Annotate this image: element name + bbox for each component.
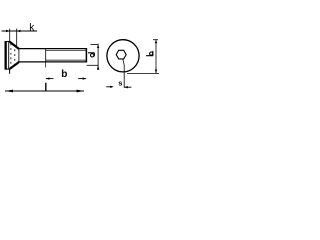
head cone top edge	[10, 42, 19, 49]
dimension d top extension	[91, 44, 99, 46]
hidden socket line 1 (dashed)	[10, 44, 12, 68]
dimension b line right piece	[78, 78, 86, 80]
svg-text:b: b	[61, 69, 67, 80]
head cone bottom edge	[10, 62, 19, 69]
dimension b extension line	[45, 62, 47, 68]
dimension d bottom arrow	[97, 65, 99, 69]
shank top edge	[18, 48, 87, 50]
dimension dk line	[155, 40, 157, 74]
dimension d bottom extension	[87, 64, 99, 66]
dimension b left arrow	[46, 77, 50, 79]
dimension k extension line 2	[16, 29, 18, 48]
dimension k right arrow	[17, 30, 21, 32]
dimension b line left piece	[46, 78, 54, 80]
shank bottom edge	[18, 61, 87, 63]
dimension dk bottom arrow	[155, 70, 157, 74]
dimension l right arrow	[77, 90, 85, 93]
dimension d line	[97, 44, 99, 70]
svg-text:s: s	[118, 78, 122, 87]
dimension l line	[5, 90, 84, 92]
dimension d label (rotated d)	[88, 53, 95, 57]
dimension d top arrow	[97, 45, 99, 48]
head circle (front view)	[107, 40, 139, 72]
shank end face	[85, 48, 87, 63]
dimension s extension line	[123, 59, 124, 88]
head bottom corner tick	[9, 69, 11, 74]
thread start line	[45, 49, 47, 62]
dimension k left arrow	[6, 30, 10, 32]
dimension s right arrow	[124, 86, 128, 88]
hidden socket line 2 (dashed)	[14, 45, 16, 67]
cone-shank junction line	[18, 49, 20, 62]
head top edge	[6, 41, 11, 43]
dimension s left arrow	[110, 86, 114, 88]
head rim edge line	[8, 42, 10, 68]
dimension dk label (rotated d)	[146, 51, 153, 56]
head bottom edge	[6, 68, 11, 70]
dimension k extension line 1	[9, 29, 11, 43]
dimension dk bottom extension	[127, 72, 159, 74]
dimension l left arrow	[5, 90, 13, 93]
hex socket	[116, 50, 126, 59]
dimension s line right piece	[124, 86, 131, 88]
dimension k line	[2, 30, 38, 32]
dimension dk top arrow	[155, 40, 157, 44]
dimension s line left piece	[106, 86, 111, 88]
thread inner line top	[46, 49, 87, 51]
dimension l label	[45, 83, 46, 91]
head flat face	[5, 41, 7, 70]
dimension b right arrow	[83, 77, 87, 79]
thread inner line bottom	[46, 59, 87, 61]
dimension dk top extension	[153, 39, 158, 41]
